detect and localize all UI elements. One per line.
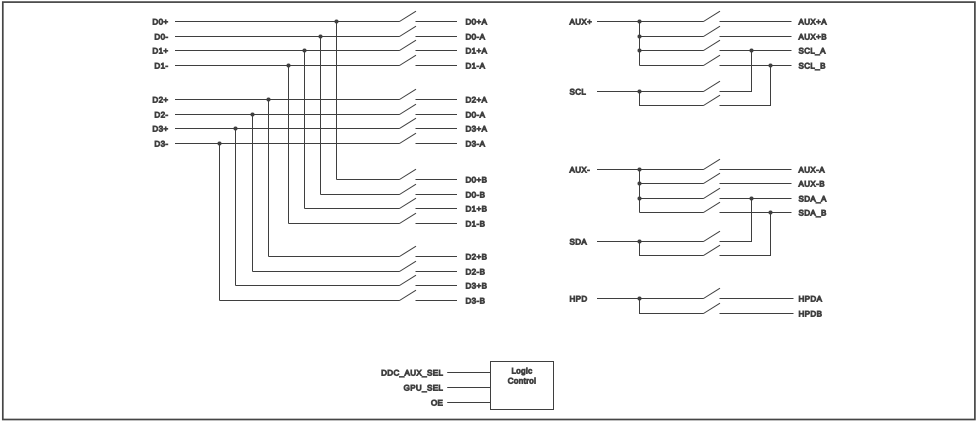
wire SCL_B output (720, 65, 792, 67)
svg-text:AUX-B: AUX-B (799, 179, 825, 188)
junction AUX- branch node 3 (638, 197, 642, 201)
wire branch to SW_SCL_A (640, 50, 704, 52)
switch SW_SDA_A (704, 188, 721, 198)
wire branch to SW_AUX+B (640, 36, 704, 38)
wire D1+ input (175, 50, 400, 52)
svg-text:HPD: HPD (570, 294, 588, 303)
switch SW_D1-B (400, 213, 417, 223)
svg-text:D0-B: D0-B (466, 190, 486, 199)
wire D0+B horizontal (337, 179, 400, 181)
wire D2- input (175, 114, 400, 116)
switch SW_HPDA (704, 288, 721, 298)
wire D2-B horizontal (253, 271, 400, 273)
switch SW_D0+B (400, 169, 417, 179)
wire branch to SW_SDA_B (640, 212, 704, 214)
switch SW_HPDB (704, 303, 721, 313)
svg-text:D0+: D0+ (152, 17, 168, 26)
svg-text:SDA_A: SDA_A (799, 194, 827, 203)
svg-text:D0-: D0- (154, 32, 168, 41)
wire D2+B horizontal (269, 256, 400, 258)
switch SW_SDA_B (704, 245, 721, 255)
wire D0- input (175, 36, 400, 38)
switch SW_SDA_A (704, 231, 721, 241)
wire D0-B output (416, 194, 458, 196)
junction AUX+ branch node 3 (638, 49, 642, 53)
switch SW_D1+A3 (400, 40, 417, 50)
svg-text:AUX+A: AUX+A (799, 17, 828, 26)
wire D1+B output (416, 208, 458, 210)
svg-text:D1-A: D1-A (466, 61, 486, 70)
wire D1+ branch vertical (304, 51, 306, 209)
wire SDA branch (640, 242, 704, 256)
wire D1-A output (416, 65, 458, 67)
junction D2+ tap (267, 98, 271, 102)
wire AUX+ input (597, 21, 704, 23)
junction D2- tap (251, 113, 255, 117)
wire D3- branch vertical (219, 144, 221, 301)
svg-text:D3-: D3- (154, 139, 168, 148)
svg-text:D3-A: D3-A (466, 139, 486, 148)
junction node SCL_B (769, 64, 773, 68)
switch SW_D3-A8 (400, 133, 417, 143)
svg-text:SCL_B: SCL_B (799, 61, 826, 70)
switch SW_AUX-A (704, 159, 721, 169)
wire SCL_A output (720, 50, 792, 52)
svg-text:AUX+B: AUX+B (799, 32, 827, 41)
wire HPDB output (720, 313, 794, 315)
switch SW_D2+B (400, 246, 417, 256)
switch SW_AUX-B (704, 173, 721, 183)
svg-text:D0+B: D0+B (466, 175, 488, 184)
wire AUX+A output (720, 21, 792, 23)
junction AUX- branch node 2 (638, 182, 642, 186)
wire SDA to node SDA_A (720, 199, 752, 242)
switch SW_SCL_A (704, 81, 721, 91)
junction AUX+ tap (638, 20, 642, 24)
switch SW_D2+A5 (400, 89, 417, 99)
svg-text:D1+B: D1+B (466, 204, 488, 213)
junction SDA tap (638, 240, 642, 244)
wire SCL to node SCL_A (720, 51, 752, 92)
wire SDA_A output (720, 198, 792, 200)
svg-text:SDA: SDA (570, 237, 588, 246)
svg-text:D2-B: D2-B (466, 267, 486, 276)
svg-text:D1-: D1- (154, 61, 168, 70)
svg-text:OE: OE (431, 398, 443, 407)
junction AUX+ branch node 2 (638, 35, 642, 39)
wire OE input (447, 402, 490, 404)
wire SCL to node SCL_B (720, 66, 771, 106)
wire SCL input (597, 91, 704, 93)
svg-text:D0-A: D0-A (466, 110, 486, 119)
junction AUX- tap (638, 168, 642, 172)
junction SCL tap (638, 90, 642, 94)
svg-text:D2+: D2+ (152, 95, 168, 104)
wire D0+A output (416, 21, 458, 23)
wire branch to SW_SCL_B (640, 65, 704, 67)
wire D3+ input (175, 128, 400, 130)
svg-text:D3+A: D3+A (466, 124, 488, 133)
switch SW_D2-B (400, 261, 417, 271)
switch SW_D0-A6 (400, 104, 417, 114)
svg-text:GPU_SEL: GPU_SEL (404, 383, 444, 392)
junction D1+ tap (303, 49, 307, 53)
wire D1+B horizontal (305, 208, 400, 210)
wire AUX- branch vertical (639, 170, 641, 213)
junction D3- tap (218, 142, 222, 146)
wire AUX-B output (720, 183, 792, 185)
wire branch to SW_SDA_A (640, 198, 704, 200)
wire SDA_B output (720, 212, 792, 214)
wire D0+ input (175, 21, 400, 23)
wire D1-B output (416, 223, 458, 225)
svg-text:AUX-A: AUX-A (799, 165, 826, 174)
svg-text:D2+A: D2+A (466, 95, 488, 104)
svg-text:D0+A: D0+A (466, 17, 488, 26)
wire D2+A output (416, 99, 458, 101)
wire AUX+B output (720, 36, 792, 38)
wire SDA input (597, 241, 704, 243)
svg-text:D3-B: D3-B (466, 296, 486, 305)
junction D0+ tap (335, 20, 339, 24)
svg-text:SCL_A: SCL_A (799, 46, 827, 55)
wire D0+B output (416, 179, 458, 181)
wire AUX- input (597, 169, 704, 171)
switch SW_D3+B (400, 275, 417, 285)
svg-text:D1+: D1+ (152, 46, 168, 55)
wire D0-A output (416, 114, 458, 116)
svg-text:Logic: Logic (511, 367, 532, 376)
switch SW_D0+A1 (400, 11, 417, 21)
wire AUX+ branch vertical (639, 22, 641, 66)
wire D0-B horizontal (321, 194, 400, 196)
svg-text:HPDB: HPDB (799, 309, 823, 318)
switch SW_SDA_B (704, 202, 721, 212)
switch SW_D1+B (400, 198, 417, 208)
svg-text:D1+A: D1+A (466, 46, 488, 55)
wire D3+ branch vertical (235, 129, 237, 286)
junction node SCL_A (750, 49, 754, 53)
wire SCL branch (640, 92, 704, 106)
wire D1+A output (416, 50, 458, 52)
switch SW_D3+A7 (400, 118, 417, 128)
wire D2- branch vertical (252, 115, 254, 272)
junction node SDA_A (750, 197, 754, 201)
junction node SDA_B (769, 211, 773, 215)
wire D3-A output (416, 143, 458, 145)
svg-text:HPDA: HPDA (799, 294, 823, 303)
wire D3-B output (416, 300, 458, 302)
switch SW_D3-B (400, 290, 417, 300)
svg-text:D3+: D3+ (152, 124, 168, 133)
wire DDC_AUX_SEL input (447, 372, 490, 374)
switch SW_AUX+A (704, 11, 721, 21)
wire D2+B output (416, 256, 458, 258)
svg-text:D2+B: D2+B (466, 252, 488, 261)
junction HPD tap (638, 297, 642, 301)
logic-control block U1 (491, 362, 554, 410)
wire D3+A output (416, 128, 458, 130)
svg-text:D1-B: D1-B (466, 219, 486, 228)
switch SW_D0-B (400, 184, 417, 194)
junction D0- tap (319, 35, 323, 39)
wire D3+B output (416, 285, 458, 287)
wire HPD input (597, 298, 704, 300)
wire branch to SW_AUX-B (640, 183, 704, 185)
wire D2-B output (416, 271, 458, 273)
svg-text:DDC_AUX_SEL: DDC_AUX_SEL (381, 368, 443, 377)
wire D0+ branch vertical (336, 22, 338, 180)
wire D3+B horizontal (236, 285, 400, 287)
svg-text:SDA_B: SDA_B (799, 208, 827, 217)
wire HPD branch (640, 299, 704, 314)
switch SW_D0-A2 (400, 26, 417, 36)
wire SDA to node SDA_B (720, 213, 771, 256)
switch SW_AUX+B (704, 26, 721, 36)
wire D2+ input (175, 99, 400, 101)
switch SW_SCL_A (704, 40, 721, 50)
svg-text:Control: Control (508, 377, 537, 386)
wire D1- input (175, 65, 400, 67)
wire GPU_SEL input (447, 387, 490, 389)
svg-text:D2-: D2- (154, 110, 168, 119)
svg-text:D0-A: D0-A (466, 32, 486, 41)
junction D3+ tap (234, 127, 238, 131)
svg-text:AUX-: AUX- (570, 165, 591, 174)
wire D0-A output (416, 36, 458, 38)
wire D0- branch vertical (320, 37, 322, 195)
svg-text:SCL: SCL (570, 87, 587, 96)
svg-text:D3+B: D3+B (466, 281, 488, 290)
switch SW_SCL_B (704, 95, 721, 105)
wire D3- input (175, 143, 400, 145)
wire HPDA output (720, 298, 794, 300)
switch SW_SCL_B (704, 55, 721, 65)
wire D3-B horizontal (220, 300, 400, 302)
wire D2+ branch vertical (268, 100, 270, 257)
wire AUX-A output (720, 169, 792, 171)
svg-text:AUX+: AUX+ (570, 17, 593, 26)
switch SW_D1-A4 (400, 55, 417, 65)
wire D1-B horizontal (289, 223, 400, 225)
junction D1- tap (287, 64, 291, 68)
wire D1- branch vertical (288, 66, 290, 224)
